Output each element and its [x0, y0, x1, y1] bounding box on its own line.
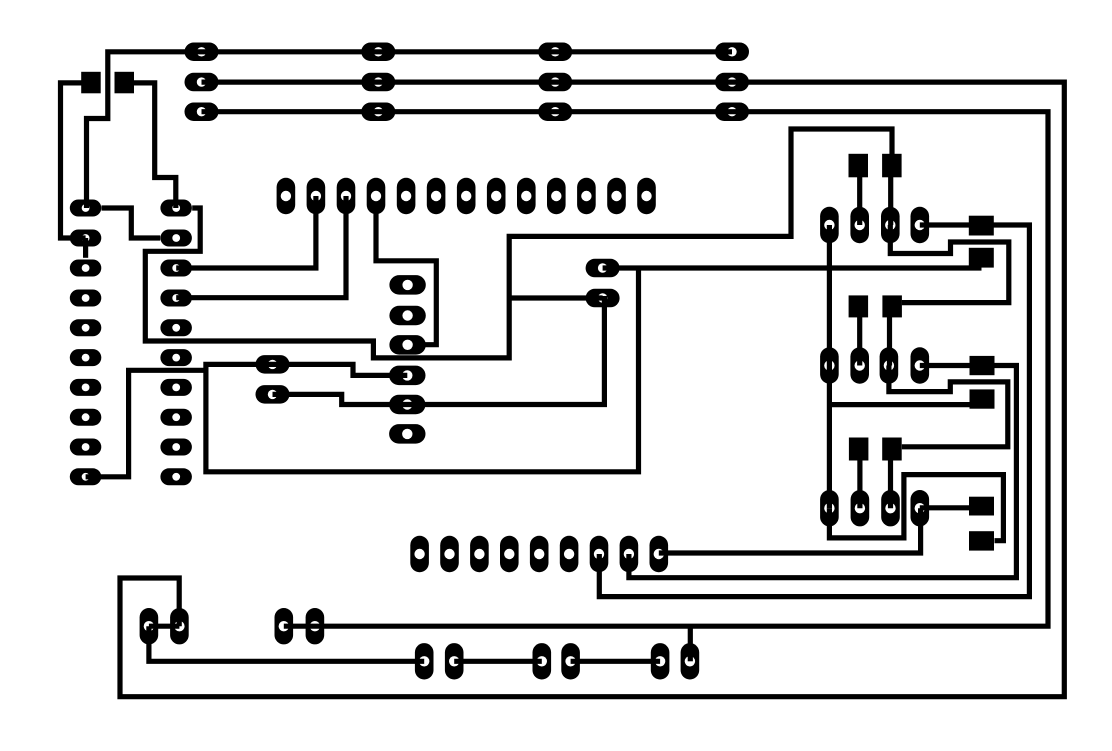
wire G column link	[827, 225, 832, 508]
header J3 pad 13	[637, 178, 656, 214]
wire G2-4 to K2A to J4-8	[629, 366, 1017, 578]
wire G3-1 to K3B box	[829, 475, 1003, 541]
wire Q3B stub	[888, 453, 893, 508]
pad A2	[70, 230, 102, 247]
header J3 pad 5	[397, 178, 416, 214]
pad F1a	[415, 643, 434, 679]
pad F2a	[533, 643, 552, 679]
header J3 pad 1	[277, 178, 296, 214]
wire F2b to F3a	[571, 659, 661, 664]
pad B4	[160, 290, 192, 307]
header J4 pad 3	[470, 536, 489, 572]
pad C6	[389, 424, 425, 444]
wire K2B feed	[829, 402, 982, 407]
square pad S1	[81, 72, 101, 94]
wire row3 net	[202, 112, 1049, 627]
row2 pad 1	[185, 73, 219, 92]
pad F3b	[681, 643, 700, 679]
row1 pad 2	[361, 43, 395, 62]
wire E1 to K1B	[603, 265, 982, 270]
square pad Q1B	[882, 154, 902, 178]
pair P2 pad 2	[306, 608, 325, 644]
G2 pad 4	[911, 347, 930, 383]
G3 pad 3	[881, 490, 900, 526]
wire A10 link	[86, 370, 206, 477]
row2 pad 2	[361, 73, 395, 92]
row3 pad 4	[715, 103, 749, 122]
row1 pad 1	[185, 43, 219, 62]
wire E2 branch	[509, 295, 602, 300]
header J3 pad 10	[547, 178, 566, 214]
pad B3	[160, 260, 192, 277]
header J3 pad 2	[307, 178, 326, 214]
pad B2	[160, 230, 192, 247]
G1 pad 4	[911, 207, 930, 243]
row1 pad 3	[538, 43, 572, 62]
pad D2	[256, 385, 290, 404]
square pad Q2A	[849, 295, 869, 317]
header J4 pad 7	[590, 536, 609, 572]
G1 pad 2	[850, 207, 869, 243]
header J3 pad 7	[457, 178, 476, 214]
square pad Q1A	[849, 154, 869, 178]
header J3 pad 9	[517, 178, 536, 214]
pad A3	[70, 260, 102, 277]
wire Q3A stub	[857, 453, 862, 508]
pair P1 pad 2	[170, 608, 189, 644]
wire Z link 2	[889, 366, 1008, 447]
pad C3	[389, 335, 425, 355]
wire S2 to B1	[132, 83, 176, 208]
pad B10	[160, 468, 192, 485]
row2 pad 3	[538, 73, 572, 92]
G1 pad 3	[881, 207, 900, 243]
row3 pad 3	[538, 103, 572, 122]
wire G3-4 to K3A	[920, 505, 982, 510]
pad C1	[389, 275, 425, 295]
square pad K3A	[969, 497, 994, 516]
G3 pad 1	[820, 490, 839, 526]
pad F1b	[445, 643, 464, 679]
pad C4	[389, 366, 425, 386]
header J3 pad 6	[427, 178, 446, 214]
wire P1 to F1a	[149, 626, 424, 661]
wire P1 link	[149, 624, 180, 629]
pad B1	[160, 200, 192, 217]
pad A4	[70, 290, 102, 307]
row1 pad 4	[715, 43, 749, 62]
row2 pad 4	[715, 73, 749, 92]
G2 pad 2	[850, 347, 869, 383]
wire A2 to A3	[83, 238, 88, 258]
G1 pad 1	[820, 207, 839, 243]
header J4 pad 5	[530, 536, 549, 572]
pad C5	[389, 395, 425, 415]
wire Q2A stub	[857, 310, 862, 366]
wire Q1A stub	[857, 170, 862, 225]
square pad K2A	[970, 356, 995, 375]
G3 pad 2	[851, 490, 870, 526]
pad C2	[389, 306, 425, 326]
pad A1	[70, 200, 102, 217]
wire F1b to F2a	[454, 659, 542, 664]
square pad Q2B	[882, 295, 902, 317]
header J3 pad 12	[607, 178, 626, 214]
wire F3 stub	[688, 626, 693, 661]
wire Q1B stub	[888, 170, 893, 225]
wire big U net	[206, 266, 639, 472]
pad B8	[160, 409, 192, 426]
pad A8	[70, 409, 102, 426]
wire G3-4 to J4-9	[659, 508, 921, 553]
wire Z link 1	[890, 225, 1009, 303]
wire row2 net	[120, 82, 1064, 697]
pad B7	[160, 379, 192, 396]
pad A9	[70, 439, 102, 456]
pad D1	[256, 355, 290, 374]
pad B5	[160, 319, 192, 336]
header J4 pad 8	[620, 536, 639, 572]
row3 pad 2	[361, 103, 395, 122]
square pad K3B	[969, 531, 994, 550]
square pad S2	[115, 72, 135, 94]
pad F2b	[561, 643, 580, 679]
pad E1	[586, 259, 620, 278]
pad A6	[70, 349, 102, 366]
wire S1 to A2	[61, 83, 86, 238]
square pad K2B	[970, 389, 995, 408]
square pad K1B	[969, 248, 994, 268]
pair P1 pad 1	[140, 608, 159, 644]
wire Q2B stub	[887, 310, 892, 366]
G2 pad 1	[820, 347, 839, 383]
header J4 pad 1	[410, 536, 429, 572]
header J4 pad 4	[500, 536, 519, 572]
pad B6	[160, 349, 192, 366]
pair P2 pad 1	[275, 608, 294, 644]
G3 pad 4	[911, 490, 930, 526]
wire B1 to Q1B	[145, 129, 892, 358]
pad A5	[70, 319, 102, 336]
header J3 pad 11	[577, 178, 596, 214]
header J3 pad 3	[337, 178, 356, 214]
pad F3a	[651, 643, 670, 679]
wire J3-4 to C3	[376, 210, 436, 345]
header J4 pad 2	[440, 536, 459, 572]
pad E2	[586, 289, 620, 308]
header J4 pad 9	[650, 536, 669, 572]
wire B3 to J3-2	[176, 196, 316, 268]
wire E2 to D2	[273, 296, 605, 405]
wire B4 to J3-3	[176, 196, 346, 298]
header J3 pad 8	[487, 178, 506, 214]
wire G1-4 to K1A to J4-7	[599, 225, 1029, 597]
header J3 pad 4	[367, 178, 386, 214]
pad A10	[70, 468, 102, 485]
pad A7	[70, 379, 102, 396]
pad B9	[160, 439, 192, 456]
row3 pad 1	[185, 103, 219, 122]
square pad K1A	[969, 216, 994, 236]
square pad Q3A	[849, 438, 869, 461]
wire row1 net	[87, 52, 733, 208]
header J4 pad 6	[560, 536, 579, 572]
G2 pad 3	[880, 347, 899, 383]
wire A1 to B2	[102, 208, 161, 238]
square pad Q3B	[882, 438, 902, 461]
